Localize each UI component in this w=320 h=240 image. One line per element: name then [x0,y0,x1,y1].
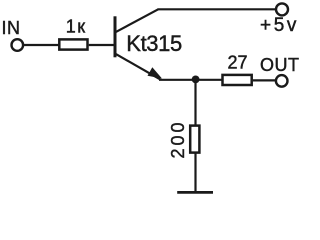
terminal OUT [276,75,288,87]
svg-text:Kt315: Kt315 [126,31,182,56]
wire junction to R3 [194,80,196,126]
wire emitter to junction [159,79,222,81]
wire IN to R1 [24,44,59,46]
junction node A [192,76,200,84]
transistor Q1 Kt315 [115,9,182,79]
ground [177,191,213,194]
svg-text:+5v: +5v [260,15,299,36]
terminal IN [11,39,23,51]
wire R3 to ground [194,153,196,192]
terminal +5v [276,3,288,15]
svg-text:IN: IN [2,18,21,38]
svg-text:1к: 1к [66,17,87,37]
wire collector to +5v [158,8,277,10]
svg-text:200: 200 [168,119,188,158]
svg-text:OUT: OUT [260,55,300,75]
wire R2 to OUT [253,79,276,81]
wire R1 to base [89,44,114,46]
svg-text:27: 27 [228,53,248,73]
